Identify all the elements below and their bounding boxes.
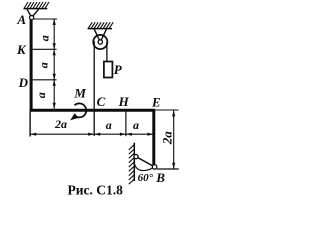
pin circle at B — [152, 165, 157, 170]
svg-text:60°: 60° — [138, 172, 154, 184]
tick line at A — [34, 18, 57, 20]
svg-text:a: a — [106, 118, 112, 132]
svg-text:a: a — [133, 118, 139, 132]
pulley axle circle — [98, 40, 102, 44]
moment M arc — [75, 103, 87, 117]
svg-text:a: a — [36, 62, 50, 68]
arrowheads right dimension — [172, 111, 175, 169]
ceiling hatching at pulley — [88, 22, 113, 28]
svg-text:C: C — [97, 94, 106, 109]
svg-text:H: H — [118, 94, 130, 109]
svg-text:B: B — [155, 170, 165, 185]
load P rectangle — [104, 62, 113, 78]
angle arc 60 — [134, 163, 152, 170]
svg-text:E: E — [151, 95, 161, 110]
moment M arrowhead — [70, 113, 78, 120]
svg-text:Рис. С1.8: Рис. С1.8 — [68, 182, 124, 197]
pin circle at A — [30, 16, 34, 20]
horizontal bar corner-C-H-E — [30, 109, 156, 112]
svg-text:D: D — [18, 75, 29, 90]
wall line at B support — [133, 143, 135, 181]
svg-text:2a: 2a — [54, 117, 67, 131]
left rope from pulley to C and tick below C — [93, 41, 95, 136]
ceiling line at pulley — [88, 28, 112, 30]
svg-text:2a: 2a — [160, 131, 175, 146]
right rope from pulley to load P — [106, 42, 108, 62]
ceiling line at A — [24, 8, 48, 10]
tick line at K — [33, 48, 57, 50]
tick below H — [125, 112, 127, 137]
pulley circle — [93, 35, 107, 49]
right dimension top tick at E — [156, 109, 179, 111]
arrowheads left dimension — [53, 19, 56, 108]
svg-text:P: P — [114, 62, 123, 77]
right dimension line 2a — [173, 111, 175, 169]
wall pin circle — [134, 155, 138, 159]
support rod wallpin-B — [136, 157, 155, 167]
vertical bar A-K-D-corner — [30, 19, 33, 112]
right dimension bottom tick at B — [157, 168, 179, 170]
svg-text:a: a — [38, 35, 52, 41]
vertical bar E-B — [152, 110, 155, 165]
arrowheads bottom dimension — [30, 133, 153, 136]
svg-text:A: A — [16, 12, 26, 27]
pin bracket triangle at A — [27, 9, 38, 17]
bottom dimension line 2a,a,a — [31, 133, 154, 135]
tick below left corner — [29, 112, 31, 137]
svg-text:a: a — [34, 92, 48, 98]
svg-text:M: M — [73, 86, 86, 101]
wall hatching at B support — [129, 145, 135, 185]
ceiling hatching at support A — [24, 2, 49, 8]
left dimension line A-corner — [53, 19, 55, 109]
pulley bracket triangle — [94, 29, 106, 42]
tick line at D — [33, 79, 57, 81]
svg-text:K: K — [16, 42, 27, 57]
